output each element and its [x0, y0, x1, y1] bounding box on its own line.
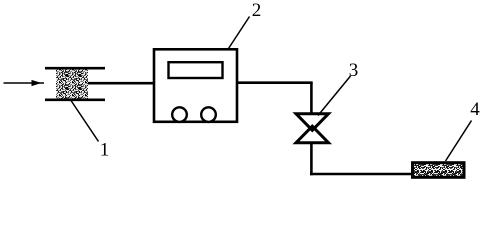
wire valve vertical top [310, 83, 313, 114]
leader line label 3 [318, 76, 351, 116]
leader line label 1 [71, 101, 99, 142]
svg-text:1: 1 [100, 140, 110, 161]
wire bottom horizontal to sensor [310, 173, 412, 176]
wire filter to meter [88, 82, 153, 85]
svg-text:2: 2 [252, 0, 262, 21]
valve 3 top triangle [296, 114, 329, 131]
meter knob left [172, 107, 187, 122]
flow meter box 2 [154, 49, 237, 122]
leader line label 4 [446, 121, 472, 162]
leader line label 2 [229, 17, 250, 49]
wire meter to valve horizontal [237, 81, 313, 84]
component 1 filter top plate [45, 67, 105, 70]
sensor 4 box [413, 163, 465, 178]
component 1 filter bottom plate [45, 99, 105, 102]
meter knob right [201, 107, 216, 122]
svg-text:4: 4 [470, 99, 480, 120]
component 1 filter media stipple [56, 68, 88, 101]
valve 3 bottom triangle [296, 126, 329, 143]
wire valve vertical bottom [310, 143, 313, 176]
svg-text:3: 3 [349, 60, 359, 81]
flow arrow [4, 80, 45, 86]
meter display window [169, 62, 223, 78]
